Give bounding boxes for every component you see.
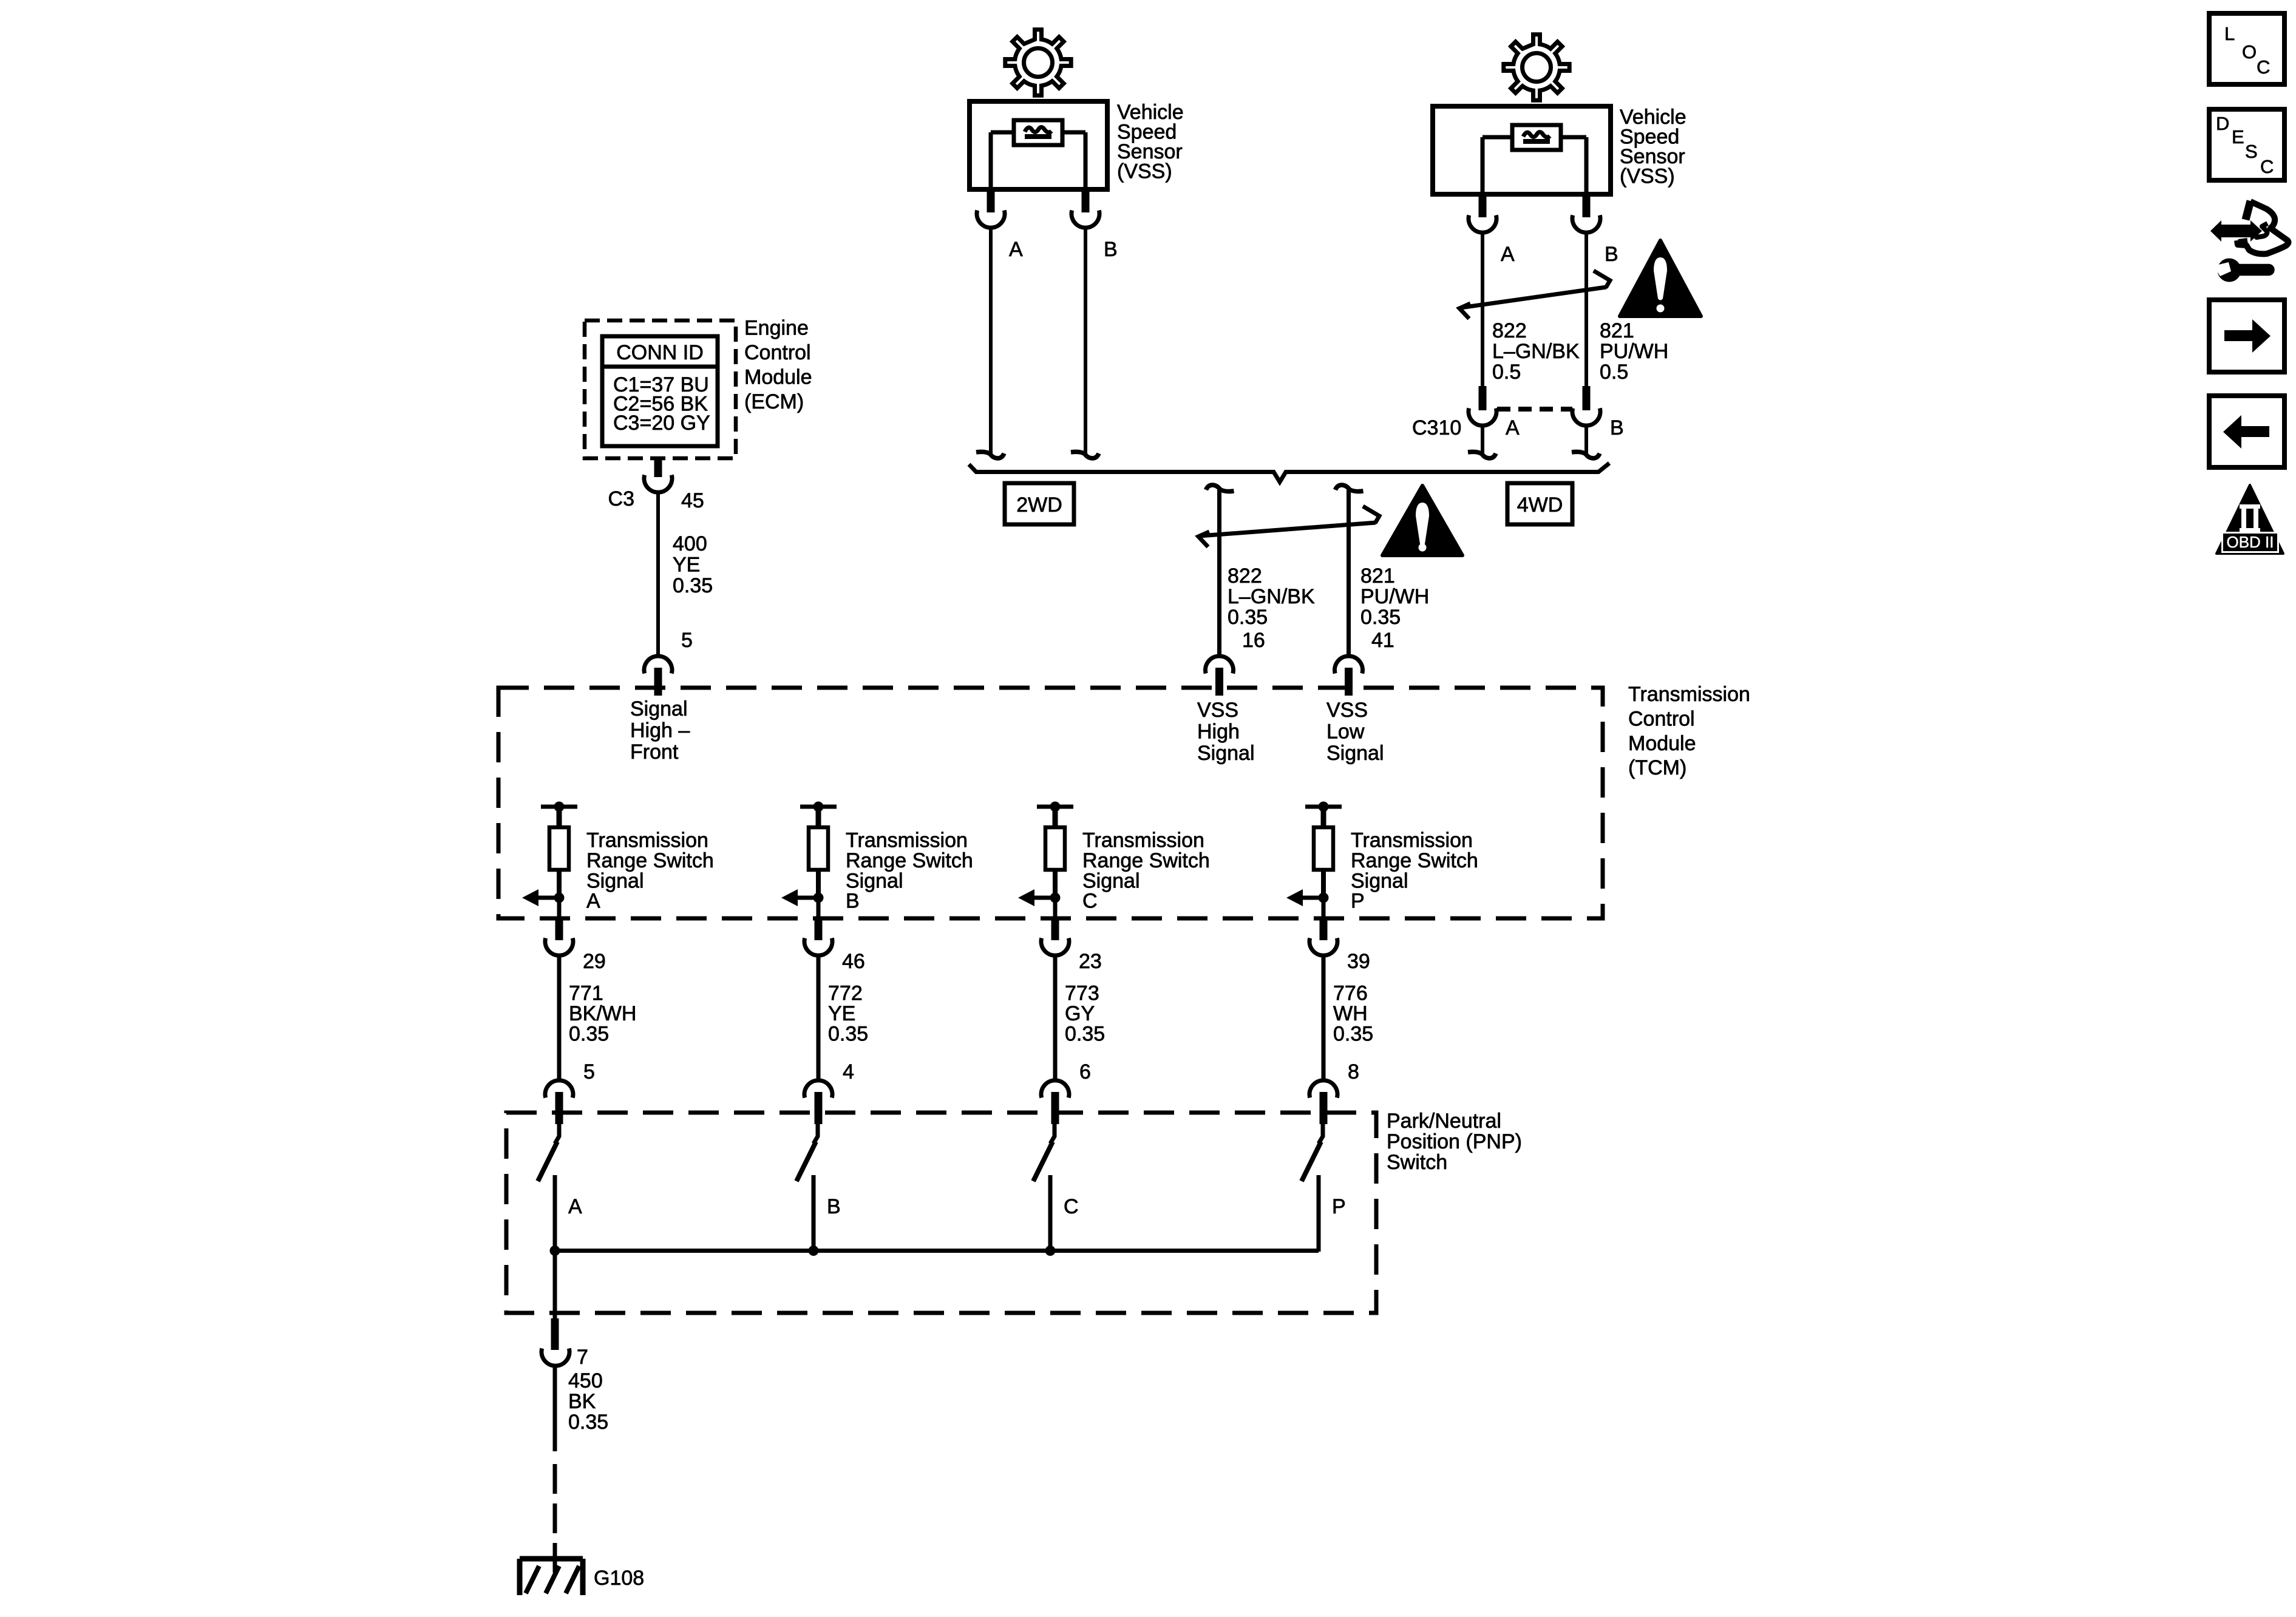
arrow to TCM logic A xyxy=(522,889,559,906)
svg-text:L: L xyxy=(2224,23,2235,44)
svg-text:0.35: 0.35 xyxy=(1228,606,1268,629)
TCM pin stub A xyxy=(555,918,563,940)
wire TCM internal top bar P xyxy=(1305,805,1342,809)
svg-text:6: 6 xyxy=(1079,1060,1091,1083)
pin label B xyxy=(1605,243,1618,266)
svg-text:P: P xyxy=(1332,1195,1346,1218)
svg-text:776: 776 xyxy=(1333,982,1368,1005)
C310 dashed mate line xyxy=(1497,407,1572,412)
svg-text:0.35: 0.35 xyxy=(569,1023,609,1046)
wire circuit P down xyxy=(1322,956,1326,1080)
svg-text:O: O xyxy=(2242,41,2257,63)
label G108 xyxy=(594,1567,644,1590)
label Transmission Range Switch Signal P xyxy=(1351,829,1478,913)
switch contact label B xyxy=(827,1195,841,1218)
svg-text:Range Switch: Range Switch xyxy=(1351,849,1478,872)
resistor lead bottom P xyxy=(1321,870,1326,898)
pin label A xyxy=(1009,238,1023,261)
svg-text:BK/WH: BK/WH xyxy=(569,1002,636,1025)
svg-text:B: B xyxy=(1610,416,1624,439)
VSS internal wiring xyxy=(991,132,1085,189)
switch A lower terminal xyxy=(553,1175,557,1252)
svg-text:VSS: VSS xyxy=(1326,699,1368,722)
svg-text:VSS: VSS xyxy=(1197,699,1238,722)
junction dot 2 B xyxy=(813,893,824,903)
svg-text:A: A xyxy=(1009,238,1023,261)
wire label 776/WH/0.35 xyxy=(1333,982,1373,1046)
pin label 7 xyxy=(577,1346,588,1369)
wire PNP ground leg xyxy=(553,1251,557,1319)
svg-text:YE: YE xyxy=(828,1002,855,1025)
svg-text:41: 41 xyxy=(1371,629,1394,652)
svg-text:Position (PNP): Position (PNP) xyxy=(1387,1130,1522,1153)
wire TCM internal top bar C xyxy=(1037,805,1073,809)
svg-text:23: 23 xyxy=(1079,950,1102,973)
VSS internal wiring xyxy=(1483,137,1586,194)
svg-text:B: B xyxy=(1605,243,1618,266)
svg-text:C: C xyxy=(1064,1195,1079,1218)
svg-text:CONN ID: CONN ID xyxy=(616,341,704,364)
svg-text:0.35: 0.35 xyxy=(1360,606,1401,629)
svg-text:0.35: 0.35 xyxy=(828,1023,868,1046)
icon box arrow left xyxy=(2209,396,2284,467)
wire VSS-2WD pin A down xyxy=(989,229,993,455)
connector label C3 xyxy=(608,487,634,510)
wire label 822 L-GN/BK 0.35 xyxy=(1228,564,1315,629)
wire 400 YE xyxy=(656,492,660,656)
svg-text:400: 400 xyxy=(673,532,707,555)
svg-text:0.35: 0.35 xyxy=(673,574,713,597)
PNP bus to P riser xyxy=(1317,1175,1321,1251)
pin label 23 xyxy=(1079,950,1102,973)
resistor lead top A xyxy=(557,807,562,827)
switch contact label P xyxy=(1332,1195,1346,1218)
resistor RC xyxy=(1045,827,1065,870)
resistor RB xyxy=(809,827,828,870)
svg-text:A: A xyxy=(586,890,600,913)
TCM pin connector A xyxy=(545,938,573,956)
svg-text:C: C xyxy=(2257,56,2270,78)
VSS internal sensor element xyxy=(1512,125,1561,150)
svg-text:450: 450 xyxy=(568,1369,603,1392)
svg-text:Control: Control xyxy=(1628,707,1695,730)
C310 stub A xyxy=(1479,386,1487,410)
svg-text:Transmission: Transmission xyxy=(1351,829,1473,852)
resistor lead bottom B xyxy=(816,870,821,898)
PNP bus junction dot A xyxy=(550,1246,560,1256)
TCM pin 41 stub xyxy=(1345,668,1353,696)
icon diagnostic arrows and wrench xyxy=(2210,201,2288,282)
wire 450 BK dashed continuation xyxy=(553,1464,557,1573)
svg-text:Switch: Switch xyxy=(1387,1151,1447,1174)
wire TCM internal top bar A xyxy=(541,805,577,809)
CONN ID table xyxy=(602,336,718,446)
wire label 400 YE 0.35 xyxy=(673,532,713,597)
switch C lower terminal xyxy=(1048,1175,1053,1252)
svg-text:B: B xyxy=(846,890,860,913)
label box 4WD xyxy=(1507,483,1572,524)
svg-text:0.5: 0.5 xyxy=(1492,361,1521,384)
wire end hook C310-B xyxy=(1572,452,1600,458)
pin label 6 xyxy=(1079,1060,1091,1083)
svg-text:Signal: Signal xyxy=(1082,869,1140,892)
pin label 5 xyxy=(583,1060,595,1083)
icon box arrow right xyxy=(2209,300,2284,372)
wire label 450 BK 0.35 xyxy=(568,1369,608,1434)
svg-text:Range Switch: Range Switch xyxy=(586,849,714,872)
wire label 773/GY/0.35 xyxy=(1065,982,1105,1046)
svg-text:S: S xyxy=(2245,141,2258,162)
VSS pin B connector xyxy=(1572,215,1600,233)
warning triangle upper xyxy=(1620,240,1701,316)
wire 450 BK xyxy=(553,1366,557,1451)
wire to TCM pin A xyxy=(557,898,562,918)
PNP ground stub xyxy=(551,1318,559,1350)
label Transmission Control Module (TCM) xyxy=(1628,683,1750,779)
wire label 821 PU/WH 0.35 xyxy=(1360,564,1429,629)
svg-text:D: D xyxy=(2216,113,2229,134)
label Park/Neutral Position (PNP) Switch xyxy=(1387,1110,1522,1174)
twisted pair symbol lower xyxy=(1198,506,1379,547)
TCM pin 41 connector xyxy=(1335,656,1363,674)
VSS internal sensor element xyxy=(1014,120,1062,145)
switch contact label C xyxy=(1064,1195,1079,1218)
svg-text:Transmission: Transmission xyxy=(586,829,708,852)
svg-text:YE: YE xyxy=(673,554,700,577)
junction dot P xyxy=(1319,802,1329,812)
PNP pin connector P xyxy=(1309,1080,1337,1098)
pin label A xyxy=(1501,243,1515,266)
wire TCM internal top bar B xyxy=(800,805,837,809)
svg-text:0.35: 0.35 xyxy=(1065,1023,1105,1046)
switch C blade xyxy=(1033,1142,1053,1181)
label VSS High Signal xyxy=(1197,699,1255,765)
ground G108 xyxy=(520,1559,583,1595)
svg-text:822: 822 xyxy=(1228,564,1262,588)
svg-text:4WD: 4WD xyxy=(1517,493,1563,517)
pin label 39 xyxy=(1347,950,1370,973)
pin label 41 xyxy=(1371,629,1394,652)
C310 pin label A xyxy=(1506,416,1520,439)
TCM dashed box xyxy=(498,688,1603,918)
C310 connector A xyxy=(1469,408,1496,426)
wire VSS-4WD pin A down xyxy=(1481,234,1484,386)
switch B upper terminal xyxy=(813,1123,818,1144)
pin label 46 xyxy=(842,950,865,973)
icon OBD II triangle xyxy=(2216,485,2283,554)
svg-text:C3=20 GY: C3=20 GY xyxy=(613,412,710,435)
PNP pin stub A xyxy=(555,1092,563,1124)
wire circuit A down xyxy=(557,956,562,1080)
switch P lower terminal xyxy=(1317,1175,1321,1252)
junction dot 2 C xyxy=(1050,893,1061,903)
svg-text:Module: Module xyxy=(744,366,812,389)
label Transmission Range Switch Signal C xyxy=(1082,829,1210,913)
TCM pin connector C xyxy=(1041,938,1069,956)
svg-text:2WD: 2WD xyxy=(1016,493,1062,517)
svg-text:Transmission: Transmission xyxy=(846,829,968,852)
ECM dashed box xyxy=(585,320,736,458)
svg-text:39: 39 xyxy=(1347,950,1370,973)
PNP pin connector B xyxy=(804,1080,832,1098)
svg-text:5: 5 xyxy=(681,629,693,652)
svg-text:Range Switch: Range Switch xyxy=(1082,849,1210,872)
svg-text:(ECM): (ECM) xyxy=(744,390,804,413)
svg-text:E: E xyxy=(2232,126,2244,147)
VSS pin A connector xyxy=(1469,215,1496,233)
ECM pin stub xyxy=(654,458,662,477)
VSS pin B stub xyxy=(1082,189,1090,212)
svg-text:A: A xyxy=(1501,243,1515,266)
junction dot 2 P xyxy=(1319,893,1329,903)
svg-text:821: 821 xyxy=(1360,564,1395,588)
svg-text:High –: High – xyxy=(630,719,690,742)
wire to TCM pin B xyxy=(817,898,821,918)
svg-text:Control: Control xyxy=(744,341,811,364)
svg-text:C3: C3 xyxy=(608,487,634,510)
pin label 29 xyxy=(583,950,606,973)
label C310 xyxy=(1412,416,1461,439)
switch B blade xyxy=(796,1142,816,1181)
VSS pin B connector xyxy=(1072,211,1099,228)
PNP bus junction dot C xyxy=(1045,1246,1056,1256)
TCM pin connector P xyxy=(1309,938,1337,956)
svg-text:45: 45 xyxy=(681,489,704,512)
TCM pin stub B xyxy=(815,918,823,940)
label box 2WD xyxy=(1005,483,1074,524)
svg-text:A: A xyxy=(568,1195,582,1218)
svg-text:(VSS): (VSS) xyxy=(1620,165,1675,188)
svg-text:Signal: Signal xyxy=(630,697,688,720)
junction dot A xyxy=(554,802,565,812)
label Vehicle Speed Sensor (VSS) xyxy=(1620,106,1686,188)
svg-text:High: High xyxy=(1197,720,1240,744)
svg-text:4: 4 xyxy=(843,1060,854,1083)
wire end hook A xyxy=(976,452,1004,458)
PNP pin connector C xyxy=(1041,1080,1069,1098)
label Vehicle Speed Sensor (VSS) xyxy=(1117,101,1184,183)
label Signal High - Front xyxy=(630,697,690,764)
wire to TCM pin C xyxy=(1053,898,1058,918)
svg-text:Signal: Signal xyxy=(846,869,903,892)
PNP pin connector A xyxy=(545,1080,573,1098)
resistor lead bottom A xyxy=(557,870,562,898)
svg-text:(TCM): (TCM) xyxy=(1628,756,1686,779)
svg-text:16: 16 xyxy=(1242,629,1265,652)
wire label 772/YE/0.35 xyxy=(828,982,868,1046)
C310 pin label B xyxy=(1610,416,1624,439)
svg-text:C: C xyxy=(1082,890,1098,913)
TCM pin 16 connector xyxy=(1206,656,1234,674)
VSS box xyxy=(970,101,1107,189)
TCM pin 5 stub xyxy=(654,668,662,696)
svg-text:A: A xyxy=(1506,416,1520,439)
arrow to TCM logic C xyxy=(1018,889,1055,906)
wire C310 A down xyxy=(1481,424,1484,455)
wire VSS-4WD pin B down xyxy=(1584,234,1588,386)
pin label 16 xyxy=(1242,629,1265,652)
PNP bus junction dot B xyxy=(809,1246,819,1256)
switch C upper terminal xyxy=(1050,1123,1055,1144)
PNP pin 7 connector xyxy=(542,1349,569,1366)
resistor RP xyxy=(1314,827,1333,870)
svg-text:B: B xyxy=(1104,238,1118,261)
svg-text:C310: C310 xyxy=(1412,416,1461,439)
svg-text:0.5: 0.5 xyxy=(1600,361,1628,384)
resistor lead top B xyxy=(816,807,821,827)
pin label 8 xyxy=(1348,1060,1359,1083)
arrow to TCM logic P xyxy=(1286,889,1323,906)
label Transmission Range Switch Signal B xyxy=(846,829,973,913)
junction dot B xyxy=(813,802,824,812)
switch P blade xyxy=(1302,1142,1321,1181)
label VSS Low Signal xyxy=(1326,699,1384,765)
wire circuit B down xyxy=(817,956,821,1080)
svg-text:L–GN/BK: L–GN/BK xyxy=(1228,585,1315,608)
PNP dashed box xyxy=(506,1113,1376,1313)
svg-text:Low: Low xyxy=(1326,720,1365,744)
svg-text:7: 7 xyxy=(577,1346,588,1369)
C310 connector B xyxy=(1572,408,1600,426)
svg-text:773: 773 xyxy=(1065,982,1099,1005)
VSS pin B stub xyxy=(1583,194,1591,217)
wire label 822 L-GN/BK 0.5 xyxy=(1492,319,1580,384)
gear icon xyxy=(1504,35,1569,100)
svg-text:821: 821 xyxy=(1600,319,1634,342)
svg-text:Front: Front xyxy=(630,741,679,764)
svg-text:Signal: Signal xyxy=(1351,869,1408,892)
VSS pin A connector xyxy=(977,211,1005,228)
svg-text:46: 46 xyxy=(842,950,865,973)
twisted pair symbol upper xyxy=(1459,271,1610,319)
svg-text:Park/Neutral: Park/Neutral xyxy=(1387,1110,1501,1133)
warning triangle lower xyxy=(1382,486,1462,555)
junction dot 2 A xyxy=(554,893,565,903)
switch contact label A xyxy=(568,1195,582,1218)
wire end hook C310-A xyxy=(1468,452,1496,458)
svg-text:Signal: Signal xyxy=(1197,742,1255,765)
svg-text:BK: BK xyxy=(568,1390,596,1413)
label Transmission Range Switch Signal A xyxy=(586,829,714,913)
svg-text:771: 771 xyxy=(569,982,603,1005)
resistor lead bottom C xyxy=(1053,870,1058,898)
svg-text:822: 822 xyxy=(1492,319,1527,342)
svg-text:OBD II: OBD II xyxy=(2226,533,2274,551)
arrow to TCM logic B xyxy=(781,889,818,906)
wire VSS low signal xyxy=(1347,489,1351,656)
icon box DESC xyxy=(2209,109,2284,180)
wire VSS high signal xyxy=(1217,489,1221,656)
svg-text:Transmission: Transmission xyxy=(1628,683,1750,706)
svg-text:Signal: Signal xyxy=(1326,742,1384,765)
svg-text:PU/WH: PU/WH xyxy=(1600,340,1668,363)
svg-text:8: 8 xyxy=(1348,1060,1359,1083)
junction dot C xyxy=(1050,802,1061,812)
PNP pin stub P xyxy=(1320,1092,1328,1124)
switch A blade xyxy=(538,1142,557,1181)
svg-text:Engine: Engine xyxy=(744,317,809,340)
resistor RA xyxy=(549,827,569,870)
resistor lead top C xyxy=(1053,807,1058,827)
TCM pin stub P xyxy=(1320,918,1328,940)
PNP pin stub B xyxy=(815,1092,823,1124)
VSS pin A stub xyxy=(987,189,995,212)
gear icon xyxy=(1005,30,1071,95)
TCM pin 5 connector xyxy=(644,656,672,674)
wire VSS low hook xyxy=(1336,485,1364,492)
PNP pin stub C xyxy=(1051,1092,1059,1124)
resistor lead top P xyxy=(1321,807,1326,827)
wire C310 B down xyxy=(1584,424,1588,455)
icon box LOC xyxy=(2209,13,2284,84)
VSS box xyxy=(1433,106,1611,194)
wire end hook B xyxy=(1071,452,1099,458)
svg-text:Range Switch: Range Switch xyxy=(846,849,973,872)
svg-text:PU/WH: PU/WH xyxy=(1360,585,1429,608)
wire label 771/BK/WH/0.35 xyxy=(569,982,636,1046)
wire label 821 PU/WH 0.5 xyxy=(1600,319,1668,384)
svg-text:5: 5 xyxy=(583,1060,595,1083)
svg-text:Transmission: Transmission xyxy=(1082,829,1204,852)
svg-text:WH: WH xyxy=(1333,1002,1368,1025)
wire VSS-2WD pin B down xyxy=(1084,229,1087,455)
PNP common bus wire xyxy=(555,1249,1319,1253)
svg-text:772: 772 xyxy=(828,982,863,1005)
C310 stub B xyxy=(1583,386,1591,410)
ECM pin connector C3 xyxy=(644,475,672,493)
TCM pin 16 stub xyxy=(1215,668,1223,696)
pin label 45 xyxy=(681,489,704,512)
svg-text:C: C xyxy=(2260,156,2274,177)
svg-text:Signal: Signal xyxy=(586,869,644,892)
wire to TCM pin P xyxy=(1322,898,1326,918)
VSS pin A stub xyxy=(1479,194,1487,217)
wire circuit C down xyxy=(1053,956,1058,1080)
pin label 4 xyxy=(843,1060,854,1083)
switch P upper terminal xyxy=(1319,1123,1323,1144)
svg-text:0.35: 0.35 xyxy=(1333,1023,1373,1046)
svg-text:L–GN/BK: L–GN/BK xyxy=(1492,340,1580,363)
TCM pin stub C xyxy=(1051,918,1059,940)
label Engine Control Module (ECM) xyxy=(744,317,812,414)
pin label B xyxy=(1104,238,1118,261)
pin label 5 xyxy=(681,629,693,652)
switch A upper terminal xyxy=(555,1123,559,1144)
switch B lower terminal xyxy=(812,1175,816,1252)
svg-text:29: 29 xyxy=(583,950,606,973)
svg-text:B: B xyxy=(827,1195,841,1218)
bus brace line xyxy=(969,463,1609,482)
svg-text:GY: GY xyxy=(1065,1002,1095,1025)
svg-text:P: P xyxy=(1351,890,1365,913)
svg-text:Module: Module xyxy=(1628,732,1696,755)
svg-text:G108: G108 xyxy=(594,1567,644,1590)
svg-text:0.35: 0.35 xyxy=(568,1411,608,1434)
wire VSS high hook xyxy=(1206,485,1234,492)
svg-text:(VSS): (VSS) xyxy=(1117,160,1172,183)
TCM pin connector B xyxy=(804,938,832,956)
